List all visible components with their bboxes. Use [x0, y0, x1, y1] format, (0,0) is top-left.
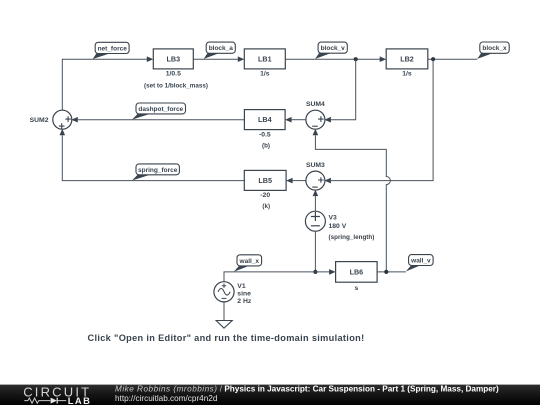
- wire: LB4 output to SUM2 plus input (dashpot_force net): [71, 117, 244, 123]
- wire: block_x junction down and left to SUM3 plus input: [324, 59, 433, 183]
- wire: block_v junction down to SUM4 plus input: [324, 59, 355, 122]
- net label block_a: [204, 42, 236, 59]
- svg-text:SUM3: SUM3: [306, 162, 325, 169]
- block LB4 (gain -0.5, damper b): [244, 110, 285, 150]
- svg-text:LAB: LAB: [68, 395, 91, 405]
- net label block_x: [477, 42, 509, 59]
- wire: V1 bottom to ground: [223, 302, 225, 321]
- wire: wall_v junction up (hop over SUM3 wire) to SUM4 minus input: [313, 129, 391, 272]
- wire: SUM3 output to LB5 input: [286, 178, 306, 184]
- wire: LB1 output to LB2 input (block_v net): [285, 56, 386, 62]
- CircuitLab logo: [23, 384, 91, 405]
- svg-text:block_v: block_v: [321, 45, 346, 52]
- net label wall_v: [406, 255, 433, 272]
- voltage source V3 180 V (spring_length): [305, 211, 374, 241]
- summing block SUM2: [30, 110, 72, 129]
- wire: V3 top to SUM3 minus input: [313, 190, 319, 212]
- junction of V3 with wall_x net: [313, 270, 317, 274]
- summing block SUM4: [306, 101, 325, 129]
- junction on wall_v net: [384, 270, 388, 274]
- svg-text:net_force: net_force: [98, 45, 128, 52]
- junction on block_v net: [354, 57, 358, 61]
- block LB5 (gain -20, spring k): [244, 170, 286, 210]
- wire: LB2 output to block_x label: [428, 58, 478, 60]
- svg-text:LB4: LB4: [258, 115, 272, 124]
- svg-text:V3: V3: [329, 215, 338, 222]
- svg-text:block_x: block_x: [482, 45, 507, 52]
- wire: V3 bottom down to wall_x net: [314, 231, 316, 272]
- block LB1 (integrator 1/s): [244, 49, 285, 77]
- svg-text:180 V: 180 V: [329, 223, 347, 230]
- wire: SUM4 output to LB4 input: [285, 117, 306, 123]
- svg-text:LB2: LB2: [400, 55, 414, 64]
- junction on block_x net: [431, 57, 435, 61]
- wire: V1 top right to LB6 input (wall_x net): [224, 269, 336, 282]
- svg-text:1/0.5: 1/0.5: [166, 70, 181, 77]
- svg-text:LB3: LB3: [167, 55, 181, 64]
- ground: [216, 321, 232, 329]
- wire: LB3 output to LB1 input (block_a net): [193, 56, 244, 62]
- block LB3 (gain 1/0.5): [144, 49, 208, 90]
- svg-text:sine: sine: [237, 291, 251, 298]
- wire: LB6 output to wall_v label: [377, 271, 406, 273]
- footer bar: [0, 385, 540, 405]
- net label wall_x: [234, 255, 262, 272]
- svg-text:1/s: 1/s: [402, 70, 412, 77]
- svg-text:(b): (b): [262, 142, 270, 149]
- net label dashpot_force: [132, 103, 186, 120]
- wire: SUM2 output up and right to LB3 input (net_force net): [62, 56, 153, 110]
- net label block_v: [315, 42, 347, 59]
- block LB6 (derivative s): [336, 262, 378, 292]
- svg-text:2 Hz: 2 Hz: [237, 298, 252, 305]
- svg-text:SUM2: SUM2: [30, 117, 49, 124]
- svg-text:LB1: LB1: [258, 55, 272, 64]
- voltage source V1 sine 2 Hz: [214, 282, 252, 305]
- svg-text:SUM4: SUM4: [306, 101, 325, 108]
- svg-text:(set to 1/block_mass): (set to 1/block_mass): [144, 82, 208, 89]
- svg-text:wall_v: wall_v: [410, 258, 431, 265]
- svg-text:LB5: LB5: [258, 176, 272, 185]
- svg-text:-0.5: -0.5: [259, 132, 271, 139]
- svg-text:dashpot_force: dashpot_force: [138, 106, 183, 113]
- svg-text:-20: -20: [260, 192, 270, 199]
- svg-text:Mike Robbins (mrobbins) / Phys: Mike Robbins (mrobbins) / Physics in Jav…: [115, 384, 499, 393]
- svg-text:spring_force: spring_force: [138, 167, 178, 174]
- svg-text:Click "Open in Editor" and run: Click "Open in Editor" and run the time-…: [88, 333, 365, 343]
- svg-text:LB6: LB6: [350, 268, 364, 277]
- svg-text:block_a: block_a: [209, 45, 234, 52]
- svg-text:http://circuitlab.com/cpr4n2d: http://circuitlab.com/cpr4n2d: [115, 394, 218, 403]
- block LB2 (integrator 1/s): [386, 49, 428, 77]
- svg-text:1/s: 1/s: [260, 70, 270, 77]
- summing block SUM3: [306, 162, 325, 190]
- net label net_force: [93, 42, 129, 59]
- svg-text:wall_x: wall_x: [239, 258, 260, 265]
- svg-text:(k): (k): [262, 203, 270, 210]
- svg-text:(spring_length): (spring_length): [329, 234, 375, 241]
- wire: LB5 output left and up to SUM2 plus input (spring_force net): [60, 129, 245, 181]
- svg-text:V1: V1: [237, 283, 246, 290]
- svg-text:s: s: [355, 285, 359, 292]
- net label spring_force: [132, 164, 179, 181]
